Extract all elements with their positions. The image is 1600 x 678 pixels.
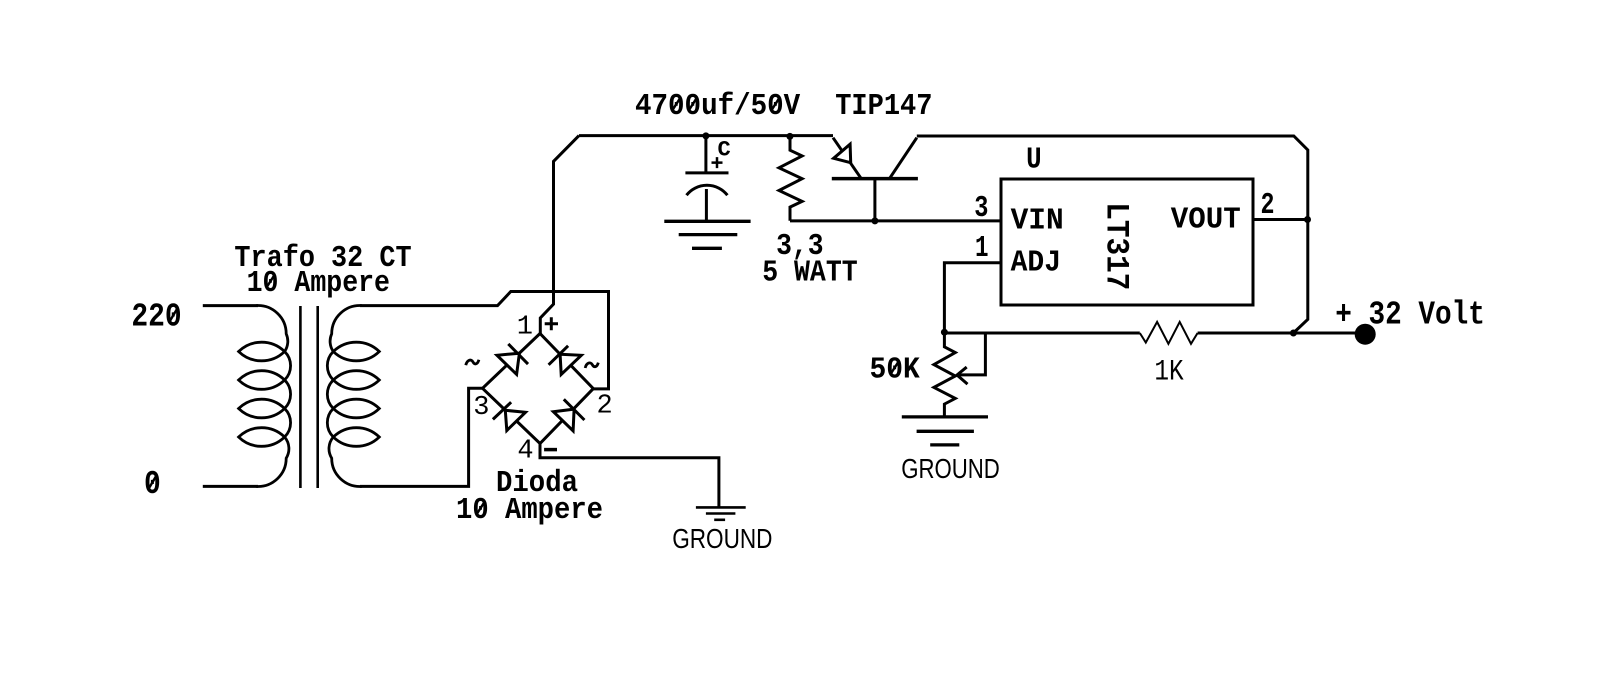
svg-text:5 WATT: 5 WATT xyxy=(762,255,858,290)
label GROUND (bridge) xyxy=(672,523,772,554)
top rail left (emitter rail) xyxy=(579,134,833,137)
wire secondary bottom to bridge AC node 3 xyxy=(360,388,483,486)
label 10 Ampere (transformer) xyxy=(247,266,390,301)
label 1K xyxy=(1154,356,1183,390)
transformer T1 primary winding xyxy=(239,306,291,487)
bridge pin label 3 xyxy=(473,393,489,423)
svg-text:2: 2 xyxy=(597,392,613,422)
label + 32 Volt xyxy=(1335,297,1485,334)
label Dioda xyxy=(496,466,578,501)
capacitor C lead xyxy=(704,136,707,172)
svg-text:4: 4 xyxy=(517,436,533,466)
potentiometer 50K body xyxy=(934,332,955,416)
svg-text:1: 1 xyxy=(517,313,533,343)
diode D2 (node2 to node1) xyxy=(549,346,582,375)
capacitor C plus mark xyxy=(712,157,723,168)
label 10 Ampere (diode) xyxy=(456,493,603,528)
diode D1 (node3 to node1) xyxy=(497,344,528,375)
capacitor C label xyxy=(718,137,731,162)
ground (capacitor) xyxy=(664,221,750,248)
bridge pin label 2 xyxy=(597,392,613,422)
pin number 1 xyxy=(975,231,989,266)
resistor R1 3,3 ohm xyxy=(779,136,802,220)
transistor Q1 emitter diagonal xyxy=(833,138,861,178)
label 50K xyxy=(870,352,921,387)
wire bridge - (pin4) to ground xyxy=(540,444,719,508)
svg-text:2: 2 xyxy=(1261,188,1275,223)
node dot ADJ/pot xyxy=(941,329,948,336)
label Trafo 32 CT xyxy=(234,241,411,276)
wire 0 to transformer primary bottom xyxy=(203,485,258,488)
label LT317 (rotated) xyxy=(1098,202,1135,290)
svg-text:1: 1 xyxy=(975,231,989,266)
transistor Q1 base lead xyxy=(873,179,876,221)
svg-text:GROUND: GROUND xyxy=(901,453,1000,484)
svg-text:220: 220 xyxy=(131,299,181,336)
svg-text:ADJ: ADJ xyxy=(1011,245,1061,280)
bridge pin label 1 xyxy=(517,313,533,343)
capacitor C top plate xyxy=(685,171,728,174)
svg-text:VIN: VIN xyxy=(1011,203,1064,238)
capacitor C bottom plate (curved) xyxy=(687,185,728,195)
node dot VOUT/rail xyxy=(1304,216,1311,223)
diode D3 (node4 to node3) xyxy=(493,402,526,430)
node dot cap/top-rail xyxy=(702,132,709,139)
ground (bridge) xyxy=(696,507,746,519)
wire ADJ node to 1K xyxy=(944,332,1139,335)
transistor Q1 collector diagonal xyxy=(890,138,917,179)
transformer T1 core xyxy=(300,306,317,488)
transformer T1 secondary winding xyxy=(327,306,379,487)
transistor Q1 TIP147 base bar xyxy=(832,177,918,181)
top rail right (collector to output) xyxy=(917,136,1308,333)
label 0 xyxy=(144,466,161,503)
output terminal dot xyxy=(1355,324,1376,345)
label 4700uf/50V xyxy=(635,89,801,124)
svg-text:TIP147: TIP147 xyxy=(835,89,932,124)
node dot output junction xyxy=(1290,330,1297,337)
ground (potentiometer) xyxy=(902,417,988,445)
pin label VOUT xyxy=(1171,202,1241,237)
tilde AC mark right xyxy=(585,363,598,368)
potentiometer wiper arrow xyxy=(957,367,968,384)
slashed zero marks xyxy=(148,98,898,515)
resistor 1K xyxy=(1140,322,1198,344)
svg-text:U: U xyxy=(1026,142,1042,177)
wire bridge + (pin1) up to top rail xyxy=(540,136,579,334)
diode D4 (node4 to node2) xyxy=(553,399,584,431)
wire 220 to transformer primary top xyxy=(203,304,258,307)
svg-text:+ 32 Volt: + 32 Volt xyxy=(1335,297,1485,334)
potentiometer wiper arm xyxy=(959,333,986,375)
wire 1K to output node xyxy=(1198,332,1294,335)
wire resistor bottom to VIN pin 3 xyxy=(790,219,1001,222)
svg-text:3: 3 xyxy=(473,393,489,423)
node dot resistor R1/top-rail xyxy=(786,133,793,140)
wire to output terminal xyxy=(1293,332,1360,335)
svg-text:4700uf/50V: 4700uf/50V xyxy=(635,89,801,124)
label TIP147 xyxy=(835,89,932,124)
capacitor C bottom lead xyxy=(705,189,708,221)
node dot base/VIN wire xyxy=(871,217,878,224)
pin number 2 xyxy=(1261,188,1275,223)
bridge pin label 4 xyxy=(517,436,533,466)
svg-text:C: C xyxy=(718,137,731,162)
pin number 3 xyxy=(974,191,988,226)
svg-text:LT317: LT317 xyxy=(1098,202,1135,290)
label 3,3 xyxy=(776,229,824,264)
transistor Q1 emitter arrow xyxy=(834,144,851,163)
IC U LT317 box xyxy=(1001,179,1253,305)
label 220 xyxy=(131,299,181,336)
wire secondary top to bridge AC node 2 xyxy=(360,292,609,389)
bridge minus mark xyxy=(544,448,557,452)
label 5 WATT xyxy=(762,255,858,290)
svg-text:50K: 50K xyxy=(870,352,921,387)
label GROUND (potentiometer) xyxy=(901,453,1000,484)
svg-text:GROUND: GROUND xyxy=(672,523,772,554)
svg-text:VOUT: VOUT xyxy=(1171,202,1241,237)
pin label VIN xyxy=(1011,203,1064,238)
bridge plus mark xyxy=(545,317,558,330)
svg-text:1K: 1K xyxy=(1154,356,1183,390)
wire ADJ pin 1 down to pot node xyxy=(944,263,1001,332)
wire VOUT pin 2 to output rail xyxy=(1253,218,1308,221)
pin label ADJ xyxy=(1011,245,1061,280)
svg-text:3: 3 xyxy=(974,191,988,226)
tilde AC mark left xyxy=(466,360,479,365)
label U xyxy=(1026,142,1042,177)
bridge diamond sides xyxy=(483,334,594,444)
